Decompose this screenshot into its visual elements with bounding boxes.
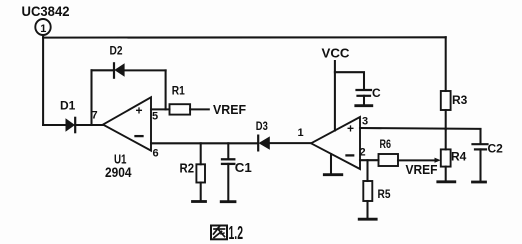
svg-text:1: 1 — [298, 127, 304, 139]
resistor R6 — [379, 137, 399, 166]
ground under op-amp U2 — [324, 173, 342, 176]
svg-text:R3: R3 — [452, 93, 468, 107]
svg-text:3: 3 — [362, 115, 368, 127]
svg-text:1: 1 — [40, 23, 46, 35]
ground under R2 — [193, 200, 206, 203]
wire D1 to op-amp pin 7 — [75, 124, 103, 126]
capacitor C1 — [222, 143, 252, 200]
svg-text:VCC: VCC — [322, 46, 351, 61]
wire VCC down to op-amp supply pin — [334, 61, 336, 131]
wire feedback loop left vertical — [90, 70, 92, 125]
svg-text:C2: C2 — [488, 142, 504, 156]
svg-text:1.2: 1.2 — [229, 223, 244, 243]
wire left vertical from node 1 — [42, 35, 44, 125]
svg-text:D1: D1 — [60, 99, 76, 113]
svg-text:R1: R1 — [172, 84, 185, 98]
wire op-amp pin2 to R6 — [360, 159, 379, 161]
resistor R2 — [180, 143, 206, 200]
wire D2 to loop right vertical — [125, 69, 166, 71]
diode D2 — [110, 43, 125, 77]
wire op-amp pin5 to R1 — [151, 108, 170, 110]
svg-text:7: 7 — [92, 110, 98, 122]
wire branch VCC to C — [335, 72, 364, 89]
svg-text:R4: R4 — [451, 150, 467, 164]
wire R6 to R4 wiper with arrow — [398, 158, 441, 163]
diode D1 — [60, 99, 76, 133]
capacitor C — [357, 86, 382, 105]
caption figure glyph (tu) — [211, 226, 227, 240]
svg-text:C1: C1 — [235, 160, 252, 175]
svg-text:5: 5 — [152, 111, 158, 123]
svg-text:D2: D2 — [110, 43, 123, 57]
svg-text:UC3842: UC3842 — [22, 3, 70, 19]
resistor R3 — [441, 91, 468, 129]
svg-text:VREF: VREF — [406, 162, 438, 177]
resistor R1 — [170, 84, 191, 115]
wire from left rail to D1 — [43, 124, 65, 126]
svg-text:R6: R6 — [380, 137, 392, 151]
wire op-amp pin3 to R3/R4 node and C2 — [360, 127, 481, 130]
wire op-amp pin6 to D3 — [151, 142, 258, 144]
wire op-amp U2 ground pin — [330, 154, 332, 173]
wire R1 to VREF — [190, 108, 209, 110]
ground under C — [356, 104, 372, 107]
wire feedback loop right vertical down to pin5 net — [165, 70, 167, 109]
ground under C1 — [221, 200, 235, 203]
wire top horizontal — [43, 36, 446, 38]
ground under C2 — [473, 181, 486, 184]
wire feedback loop top to D2 — [92, 69, 115, 71]
svg-text:2904: 2904 — [105, 164, 132, 180]
svg-text:R5: R5 — [378, 187, 391, 201]
potentiometer R4 — [441, 129, 467, 180]
svg-text:6: 6 — [153, 148, 159, 160]
svg-text:C: C — [372, 86, 381, 100]
svg-text:D3: D3 — [256, 119, 268, 133]
capacitor C2 — [473, 129, 504, 181]
node 1 pin circle — [35, 19, 50, 35]
ground under R4 — [438, 180, 455, 183]
diode D3 — [256, 119, 270, 150]
wire D3 to op-amp U2 pin 1 — [270, 142, 311, 144]
op-amp U2 triangle, output pin1 on left — [311, 117, 360, 169]
svg-text:R2: R2 — [180, 160, 195, 175]
resistor R5 — [363, 160, 390, 217]
ground under R5 — [359, 218, 376, 221]
svg-text:+: + — [347, 122, 354, 136]
op-amp U1 (LM2904) triangle, output pin7 on left — [103, 97, 151, 150]
svg-text:VREF: VREF — [213, 102, 246, 117]
svg-text:+: + — [136, 104, 143, 118]
svg-text:2: 2 — [360, 147, 366, 159]
wire top right vertical down to R3 — [445, 37, 447, 91]
